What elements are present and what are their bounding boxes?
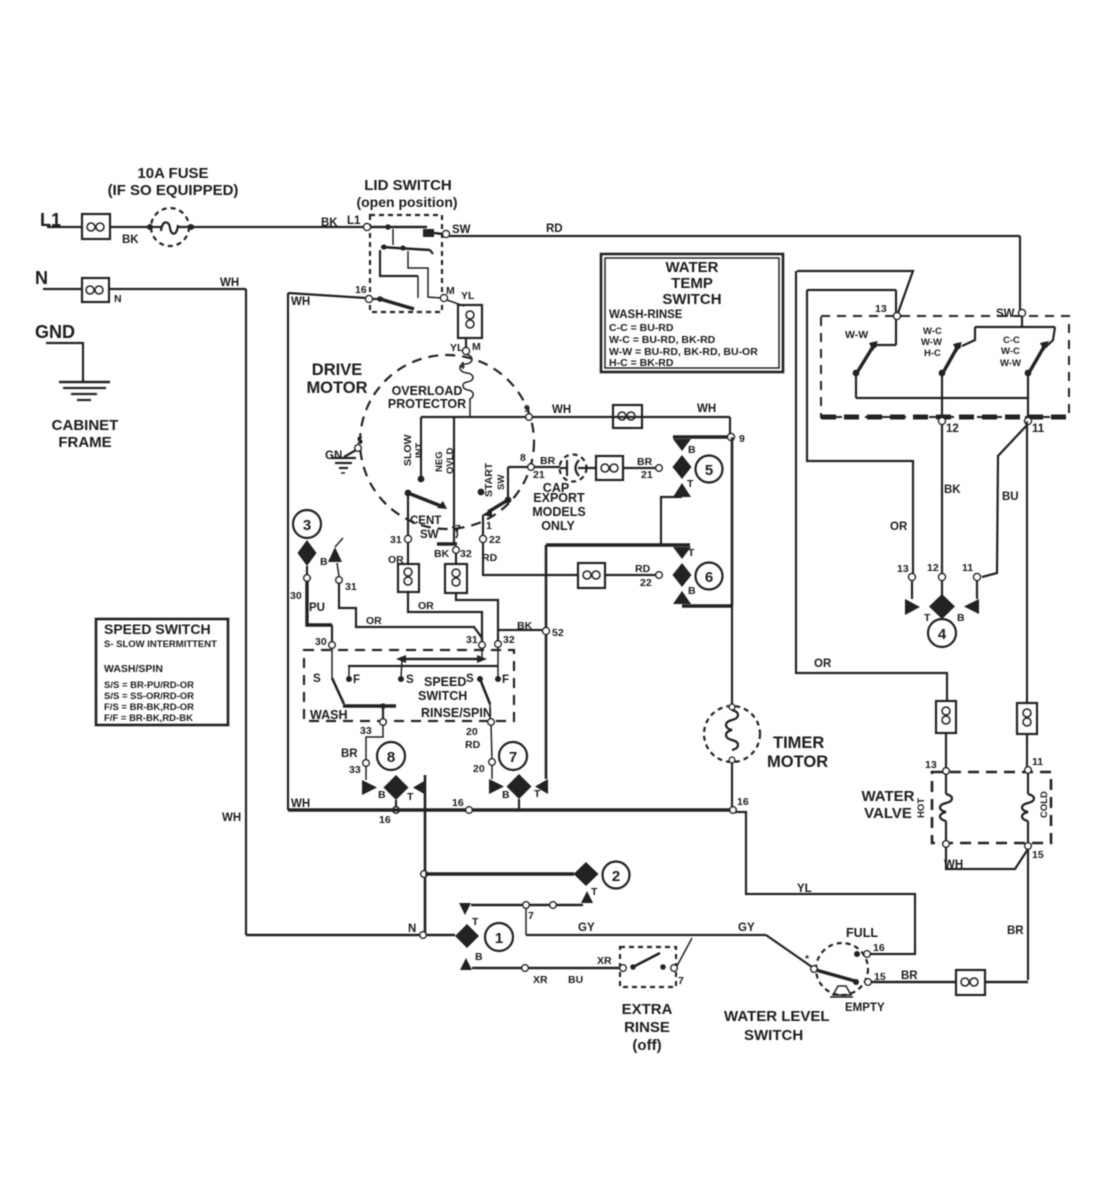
svg-text:L1: L1 — [347, 215, 361, 227]
svg-text:21: 21 — [641, 469, 653, 481]
svg-text:S/S = SS-OR/RD-OR: S/S = SS-OR/RD-OR — [104, 691, 194, 702]
svg-text:YL: YL — [461, 290, 475, 302]
svg-text:W-C = BU-RD, BK-RD: W-C = BU-RD, BK-RD — [609, 334, 716, 346]
svg-text:8: 8 — [387, 749, 395, 766]
svg-text:FULL: FULL — [846, 926, 878, 940]
svg-text:12: 12 — [927, 562, 939, 574]
svg-text:16: 16 — [452, 797, 464, 809]
svg-text:16: 16 — [379, 814, 391, 826]
svg-text:WATER LEVEL: WATER LEVEL — [724, 1008, 830, 1025]
svg-text:6: 6 — [705, 569, 713, 586]
svg-text:T: T — [688, 547, 695, 559]
svg-text:22: 22 — [489, 534, 501, 546]
svg-text:PU: PU — [309, 602, 325, 614]
svg-text:BU: BU — [1002, 491, 1019, 503]
svg-text:W-C: W-C — [923, 326, 942, 337]
svg-text:20: 20 — [473, 763, 485, 775]
svg-text:WATER: WATER — [665, 259, 718, 276]
svg-text:SW: SW — [452, 224, 471, 236]
svg-text:T: T — [591, 886, 598, 898]
svg-text:M: M — [446, 285, 455, 297]
svg-text:4: 4 — [938, 626, 947, 643]
svg-text:BR: BR — [637, 456, 653, 468]
svg-text:SWITCH: SWITCH — [418, 689, 467, 703]
svg-text:13: 13 — [875, 303, 887, 315]
svg-text:ONLY: ONLY — [541, 519, 575, 533]
svg-text:7: 7 — [509, 749, 517, 766]
svg-text:YL: YL — [797, 883, 812, 895]
svg-text:WH: WH — [552, 404, 571, 416]
svg-text:BR: BR — [540, 455, 556, 467]
svg-text:13: 13 — [897, 563, 909, 575]
svg-text:S- SLOW INTERMITTENT: S- SLOW INTERMITTENT — [104, 639, 217, 650]
svg-text:F/F = BR-BK,RD-BK: F/F = BR-BK,RD-BK — [104, 713, 193, 724]
svg-text:BK: BK — [321, 217, 338, 229]
svg-text:CENT: CENT — [410, 515, 441, 527]
svg-text:INT: INT — [414, 443, 425, 459]
svg-text:NEG: NEG — [434, 451, 445, 472]
svg-text:WATER: WATER — [861, 788, 914, 805]
svg-text:T: T — [924, 612, 931, 624]
svg-text:S: S — [466, 673, 474, 685]
svg-text:WASH: WASH — [310, 708, 348, 722]
svg-text:RINSE/SPIN: RINSE/SPIN — [421, 706, 492, 720]
svg-text:LID SWITCH: LID SWITCH — [364, 177, 452, 194]
svg-text:W-W: W-W — [845, 329, 868, 341]
svg-text:START: START — [483, 462, 495, 497]
svg-text:GY: GY — [578, 922, 595, 934]
svg-text:H-C = BK-RD: H-C = BK-RD — [609, 357, 674, 369]
svg-text:13: 13 — [925, 759, 937, 771]
svg-text:3: 3 — [303, 517, 311, 534]
svg-text:11: 11 — [1032, 756, 1043, 768]
svg-text:(open position): (open position) — [356, 194, 457, 210]
svg-text:10A FUSE: 10A FUSE — [137, 165, 208, 182]
svg-text:S/S = BR-PU/RD-OR: S/S = BR-PU/RD-OR — [104, 680, 194, 691]
svg-text:11: 11 — [962, 562, 973, 574]
svg-text:5: 5 — [357, 435, 363, 447]
svg-text:S: S — [313, 673, 321, 685]
svg-text:31: 31 — [466, 634, 478, 646]
svg-text:OR: OR — [418, 600, 434, 612]
svg-text:SWITCH: SWITCH — [744, 1027, 803, 1044]
svg-text:OVERLOAD: OVERLOAD — [392, 384, 463, 398]
svg-text:N: N — [114, 293, 122, 305]
svg-text:SW: SW — [996, 308, 1015, 320]
svg-text:9: 9 — [524, 403, 530, 415]
svg-text:BK: BK — [122, 234, 139, 246]
svg-text:W-W: W-W — [1000, 358, 1021, 369]
svg-text:T: T — [407, 791, 414, 803]
svg-text:RD: RD — [482, 552, 498, 564]
svg-text:B: B — [320, 556, 328, 568]
svg-text:SLOW: SLOW — [402, 434, 414, 466]
svg-text:GND: GND — [35, 322, 75, 342]
svg-text:B: B — [475, 951, 483, 963]
svg-text:RINSE: RINSE — [624, 1019, 670, 1036]
svg-text:H-C: H-C — [924, 348, 941, 359]
svg-text:XR: XR — [533, 974, 548, 986]
svg-text:OR: OR — [890, 521, 908, 533]
svg-text:BR: BR — [341, 748, 358, 760]
svg-text:CABINET: CABINET — [52, 417, 119, 434]
svg-text:12: 12 — [946, 423, 959, 435]
svg-text:W-W: W-W — [921, 337, 942, 348]
svg-text:EXPORT: EXPORT — [533, 491, 585, 505]
svg-text:1: 1 — [486, 520, 492, 532]
svg-text:33: 33 — [349, 764, 361, 776]
svg-text:SW: SW — [420, 529, 439, 541]
svg-text:WH: WH — [697, 403, 716, 415]
svg-text:16: 16 — [873, 942, 885, 954]
svg-text:WASH-RINSE: WASH-RINSE — [609, 309, 683, 321]
svg-text:15: 15 — [1032, 849, 1044, 861]
svg-text:B: B — [957, 612, 965, 624]
svg-text:7: 7 — [678, 975, 684, 987]
svg-text:YL: YL — [450, 342, 464, 354]
svg-text:TEMP: TEMP — [671, 275, 713, 292]
svg-text:EXTRA: EXTRA — [622, 1001, 673, 1018]
svg-text:BR: BR — [1007, 925, 1024, 937]
svg-text:B: B — [378, 789, 386, 801]
svg-text:DRIVE: DRIVE — [312, 361, 362, 379]
svg-text:TIMER: TIMER — [773, 734, 824, 752]
svg-text:32: 32 — [460, 548, 472, 560]
svg-text:SW: SW — [496, 475, 507, 490]
svg-text:RD: RD — [546, 223, 563, 235]
svg-text:N: N — [408, 923, 416, 935]
svg-text:B: B — [688, 444, 696, 456]
svg-text:MODELS: MODELS — [532, 505, 585, 519]
svg-text:BR: BR — [901, 970, 918, 982]
svg-text:20: 20 — [466, 726, 478, 738]
svg-text:GY: GY — [738, 922, 755, 934]
svg-text:BU: BU — [568, 974, 583, 986]
svg-text:T: T — [472, 916, 479, 928]
svg-text:31: 31 — [390, 534, 402, 546]
svg-text:11: 11 — [1032, 423, 1045, 435]
svg-text:EMPTY: EMPTY — [845, 1002, 885, 1014]
svg-text:S: S — [406, 674, 414, 686]
svg-text:BK: BK — [944, 484, 961, 496]
svg-text:PROTECTOR: PROTECTOR — [388, 397, 466, 411]
svg-text:RD: RD — [465, 739, 481, 751]
svg-text:32: 32 — [503, 634, 515, 646]
svg-text:SPEED SWITCH: SPEED SWITCH — [104, 621, 211, 637]
svg-text:BK: BK — [434, 548, 450, 560]
svg-text:16: 16 — [737, 796, 749, 808]
svg-text:SPEED: SPEED — [424, 675, 466, 689]
svg-text:C-C: C-C — [1003, 335, 1020, 346]
svg-text:F/S = BR-BK,RD-OR: F/S = BR-BK,RD-OR — [104, 702, 194, 713]
svg-text:OR: OR — [366, 615, 382, 627]
svg-text:9: 9 — [739, 433, 745, 445]
svg-text:(IF SO EQUIPPED): (IF SO EQUIPPED) — [108, 182, 239, 199]
svg-text:T: T — [534, 788, 541, 800]
svg-text:(off): (off) — [632, 1037, 661, 1054]
svg-text:SWITCH: SWITCH — [662, 291, 721, 308]
svg-text:WASH/SPIN: WASH/SPIN — [104, 663, 163, 675]
svg-text:B: B — [688, 585, 696, 597]
svg-text:OVLD: OVLD — [445, 447, 456, 474]
svg-text:7: 7 — [455, 523, 461, 535]
svg-text:WH: WH — [291, 296, 310, 308]
svg-text:8: 8 — [520, 452, 526, 464]
svg-text:F: F — [353, 674, 360, 686]
svg-text:N: N — [35, 268, 48, 288]
svg-text:5: 5 — [705, 462, 713, 479]
svg-text:COLD: COLD — [1039, 791, 1050, 818]
svg-text:MOTOR: MOTOR — [767, 753, 828, 771]
svg-text:WH: WH — [222, 812, 241, 824]
svg-text:30: 30 — [290, 590, 302, 602]
svg-text:XR: XR — [597, 955, 612, 967]
svg-text:7: 7 — [528, 910, 534, 922]
svg-text:WH: WH — [220, 277, 239, 289]
svg-text:WH: WH — [291, 798, 310, 810]
svg-text:16: 16 — [355, 284, 367, 296]
svg-text:33: 33 — [360, 725, 372, 737]
svg-text:FRAME: FRAME — [58, 434, 111, 451]
svg-text:1: 1 — [495, 930, 503, 947]
svg-text:21: 21 — [533, 469, 545, 481]
svg-text:52: 52 — [552, 627, 564, 639]
svg-text:W-C: W-C — [1001, 346, 1020, 357]
svg-text:C-C = BU-RD: C-C = BU-RD — [609, 322, 674, 334]
svg-text:VALVE: VALVE — [864, 805, 912, 822]
svg-text:2: 2 — [612, 868, 620, 885]
svg-text:31: 31 — [345, 581, 357, 593]
svg-text:GN: GN — [325, 450, 342, 462]
svg-text:30: 30 — [315, 636, 327, 648]
svg-text:OR: OR — [814, 658, 832, 670]
svg-text:T: T — [687, 478, 694, 490]
svg-text:RD: RD — [635, 563, 651, 575]
svg-text:M: M — [472, 341, 481, 353]
svg-text:MOTOR: MOTOR — [306, 379, 367, 397]
svg-text:HOT: HOT — [916, 798, 927, 818]
svg-text:F: F — [502, 674, 509, 686]
svg-text:22: 22 — [640, 577, 652, 589]
svg-text:B: B — [502, 789, 510, 801]
